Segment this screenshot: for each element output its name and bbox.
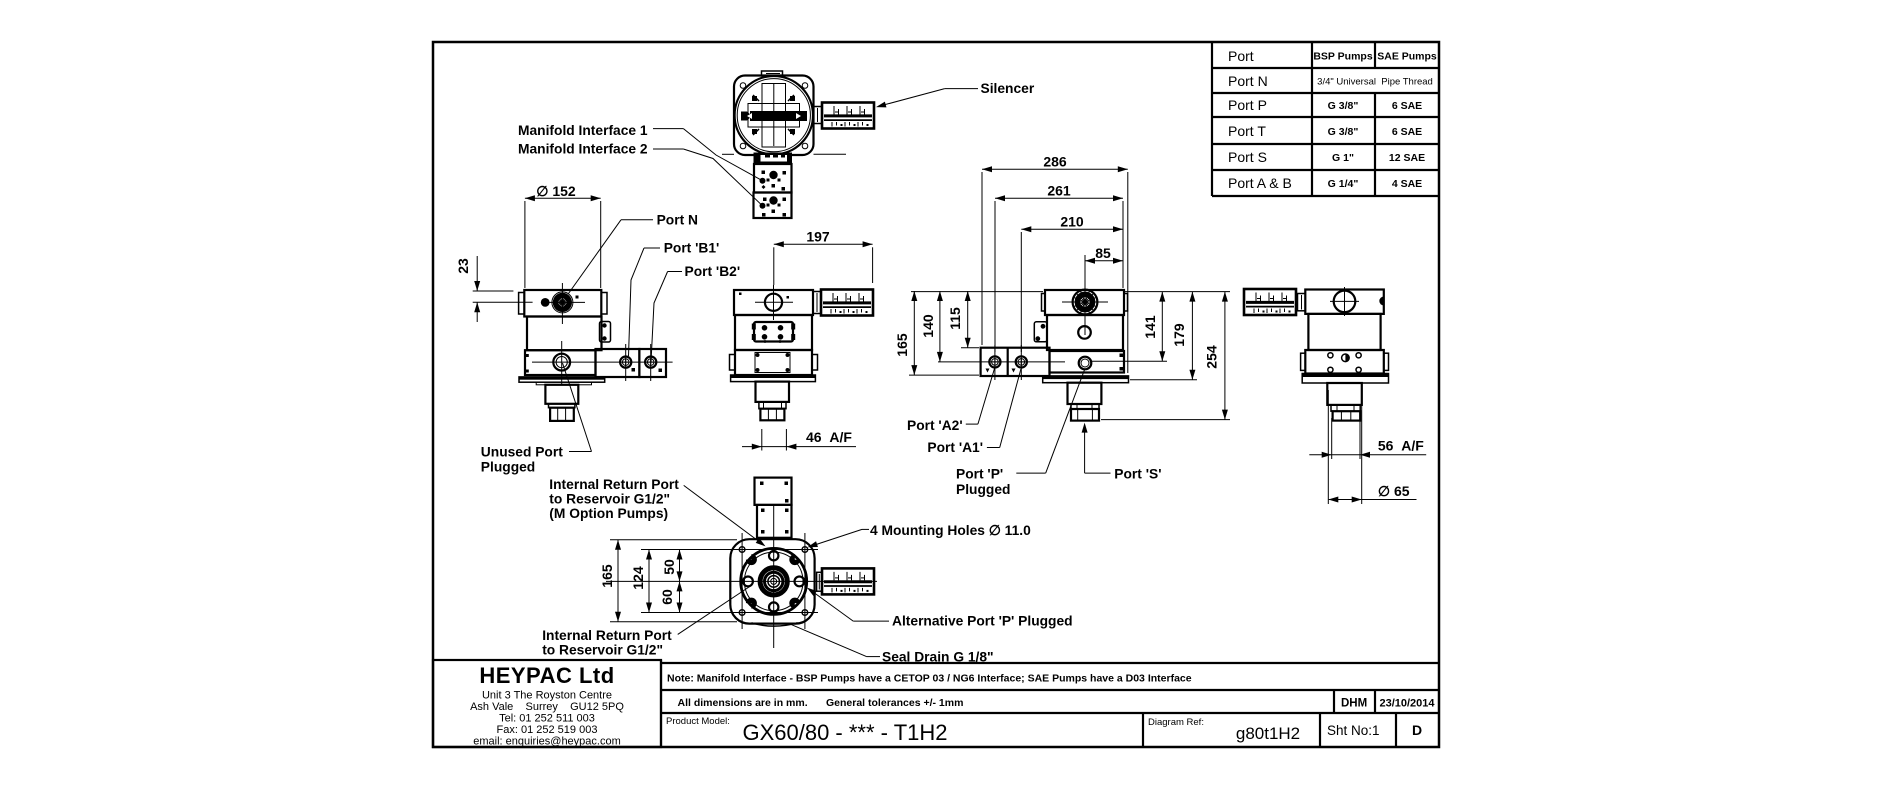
svg-text:Port T: Port T [1228,123,1266,139]
svg-text:Port N: Port N [1228,73,1268,89]
title block dimensions row [661,690,1439,713]
side latch bracket [600,322,611,343]
svg-text:Manifold Interface 2: Manifold Interface 2 [518,142,648,157]
mounting hole centrelines [606,505,877,648]
svg-text:179: 179 [1171,323,1187,347]
Internal Return Port label (bottom) [542,585,752,658]
drawing sheet frame [433,42,1439,747]
svg-text:115: 115 [947,307,963,330]
port A1 [1012,345,1027,380]
Port B2 label [651,264,740,362]
port table [1212,42,1439,196]
svg-text:Port 'A1': Port 'A1' [927,440,983,455]
hex plug (left view) [550,408,574,421]
svg-text:Unused Port: Unused Port [481,445,563,460]
svg-text:Silencer: Silencer [981,81,1035,96]
svg-text:SAE Pumps: SAE Pumps [1377,51,1437,63]
svg-text:210: 210 [1060,214,1084,230]
svg-text:85: 85 [1095,245,1111,261]
svg-text:email: enquiries@heypac.com: email: enquiries@heypac.com [473,736,621,748]
Port B1 label [629,240,720,356]
179 dimension [1130,292,1197,380]
svg-text:165: 165 [894,333,910,357]
centreline stubs [722,153,846,155]
manifold interface block 2 [754,193,792,219]
silencer (top view) [822,103,874,129]
svg-text:to Reservoir G1/2": to Reservoir G1/2" [549,492,670,507]
Port P Plugged label [956,370,1085,497]
svg-text:Port 'P': Port 'P' [956,467,1003,482]
title block note row [661,663,1439,685]
top cap (left view) [519,290,607,317]
top cap (front view) [734,285,813,320]
main body (far right view) [1308,314,1380,350]
Port A2 label [907,369,995,434]
shaft housing (left view) [545,385,578,408]
hex plug (front view) [760,409,784,421]
165 dimension (bottom view) [599,540,737,622]
svg-text:D: D [1412,722,1422,738]
mounting flange (far right view) [1302,374,1388,384]
svg-text:Port: Port [1228,48,1254,64]
svg-text:Plugged: Plugged [956,482,1010,497]
silencer connector (far right view) [1298,294,1306,311]
cover corner bolt holes [740,83,808,149]
46 A/F dimension [742,429,856,451]
port B1 [620,344,635,381]
svg-text:23/10/2014: 23/10/2014 [1379,698,1435,710]
top cap (far right view) [1305,287,1384,316]
svg-text:BSP Pumps: BSP Pumps [1313,51,1372,63]
svg-text:Port S: Port S [1228,149,1267,165]
svg-text:254: 254 [1204,345,1220,369]
shaft housing (far right view) [1327,383,1362,411]
svg-text:Internal Return Port: Internal Return Port [542,628,672,643]
mounting holes 11.0 [739,547,807,616]
Internal Return Port (M option) label [549,477,767,549]
svg-text:286: 286 [1043,154,1067,170]
56 A/F dimension [1309,418,1426,459]
svg-text:Port 'B2': Port 'B2' [685,264,741,279]
svg-text:Manifold Interface 1: Manifold Interface 1 [518,123,648,138]
mounting flange (front view) [731,375,816,382]
svg-text:6 SAE: 6 SAE [1392,126,1422,138]
svg-text:197: 197 [806,229,830,245]
svg-text:Port P: Port P [1228,97,1267,113]
cross boss on cover [748,84,800,148]
pump top cover rounded square [734,76,814,156]
mounting flange (right side view) [1043,376,1129,383]
svg-text:Plugged: Plugged [481,460,535,475]
svg-text:261: 261 [1047,183,1071,199]
dia 152 dimension [525,183,601,288]
title block company box [433,660,661,748]
Silencer label [875,81,1035,110]
port N knurled plug [548,283,585,324]
svg-text:Port A & B: Port A & B [1228,175,1292,191]
svg-text:56 A/F: 56 A/F [1378,438,1424,454]
main body (left view) [527,317,602,351]
svg-text:Sht No:1: Sht No:1 [1327,723,1380,738]
shaft housing (front view) [756,382,790,409]
manifold block rear (bottom view) [755,478,792,505]
286 dimension [982,154,1128,374]
main body (front view) [735,315,812,350]
115 dimension [947,291,979,348]
manifold interface face [752,322,795,343]
gasket collar below cover [754,153,793,165]
silencer connector (top view) [814,107,823,124]
svg-text:Product Model:: Product Model: [666,716,730,727]
Manifold Interface 1 label [518,123,762,181]
svg-text:165: 165 [599,564,615,588]
Alternative Port P Plugged label [805,585,1072,628]
Manifold Interface 2 label [518,142,762,206]
svg-text:Seal Drain G 1/8": Seal Drain G 1/8" [882,650,994,665]
svg-text:Internal Return Port: Internal Return Port [549,477,679,492]
svg-text:G 1/4": G 1/4" [1328,178,1359,190]
svg-text:Fax: 01 252 519 003: Fax: 01 252 519 003 [497,724,598,736]
hex plug port S (right side view) [1071,409,1099,421]
mounting flange (left view) [519,377,605,385]
svg-text:50: 50 [661,559,677,575]
base block (front view) [730,350,818,375]
Port A1 label [927,369,1021,455]
top tab [762,71,783,76]
manifold interface block 1 [754,164,792,193]
unused port on base block [532,341,590,384]
ports A1 A2 block [976,348,1065,376]
HEYPAC embossed logo text [741,111,807,121]
svg-text:Port 'A2': Port 'A2' [907,418,963,433]
pilot boss circles [741,548,807,614]
141 dimension (right of view) [1092,292,1231,362]
manifold block front (bottom view) [757,505,792,538]
base block (left view) [525,350,596,375]
svg-text:60: 60 [659,589,675,605]
base block with bolts (far right view) [1301,350,1389,374]
svg-text:Unit 3 The Royston Centre: Unit 3 The Royston Centre [482,690,612,702]
svg-text:6 SAE: 6 SAE [1392,100,1422,112]
85 dimension [1085,245,1123,290]
Unused Port Plugged label [481,363,592,475]
dia 65 dimension [1328,390,1416,504]
svg-text:∅ 152: ∅ 152 [536,183,576,199]
silencer (far right view) [1244,289,1296,315]
165 dimension (left of view) [894,291,1043,375]
bolt circle holes [743,551,804,612]
svg-text:General tolerances +/- 1mm: General tolerances +/- 1mm [826,697,963,709]
254 dimension [1101,292,1230,420]
Port N label [569,213,699,294]
svg-text:G 3/8": G 3/8" [1328,126,1359,138]
port A2 [986,345,1001,380]
small plugged port dot [541,298,550,307]
4 Mounting Holes label [807,523,1032,550]
svg-text:4 SAE: 4 SAE [1392,178,1422,190]
svg-text:Tel: 01 252 511 003: Tel: 01 252 511 003 [499,713,595,725]
Seal Drain label [791,624,994,664]
ports B1/B2 manifold blocks [590,349,673,377]
124 dimension (bottom view) [630,550,652,613]
top cap (right side view) [1042,290,1128,315]
svg-text:124: 124 [630,566,646,590]
197 dimension [774,229,873,286]
svg-text:G 1": G 1" [1332,152,1354,164]
svg-text:12 SAE: 12 SAE [1389,152,1425,164]
60 dimension (bottom view) [659,581,683,612]
svg-text:Port N: Port N [657,213,698,228]
port B2 [645,344,662,381]
svg-text:g80t1H2: g80t1H2 [1236,724,1300,743]
lower block with port S face (right side view) [1050,351,1125,373]
svg-text:G 3/8": G 3/8" [1328,100,1359,112]
silencer (front view) [821,290,873,316]
svg-text:All dimensions are in mm.: All dimensions are in mm. [678,697,808,709]
140 dimension [920,291,976,362]
svg-text:Alternative Port 'P' Plugged: Alternative Port 'P' Plugged [892,614,1073,629]
svg-text:GX60/80 - *** - T1H2: GX60/80 - *** - T1H2 [742,720,947,745]
23 dimension [455,256,533,322]
silencer (bottom view) [817,572,822,591]
pump mounting face squircle [730,539,814,626]
side latch bracket (right side view) [1034,322,1047,342]
261 dimension [995,183,1123,353]
svg-text:23: 23 [455,258,471,274]
svg-text:∅ 65: ∅ 65 [1378,483,1410,499]
svg-text:Diagram Ref:: Diagram Ref: [1148,717,1204,728]
splined shaft end [760,568,787,595]
silencer connector (front view) [813,292,821,314]
port P plugged circle [1079,357,1092,370]
svg-text:141: 141 [1142,315,1158,339]
svg-text:Ash Vale Surrey GU12 5PQ: Ash Vale Surrey GU12 5PQ [470,701,624,713]
port N knurled plug (side) [1062,290,1108,315]
svg-text:3/4" Universal Pipe Thread: 3/4" Universal Pipe Thread [1317,77,1433,88]
centreline (right side view) [1084,285,1086,335]
svg-text:140: 140 [920,314,936,338]
svg-text:Port 'S': Port 'S' [1114,467,1161,482]
Port S label [1082,423,1162,482]
svg-text:DHM: DHM [1341,698,1367,710]
svg-text:Note: Manifold Interface - BSP: Note: Manifold Interface - BSP Pumps hav… [667,673,1192,685]
svg-text:(M Option Pumps): (M Option Pumps) [549,506,668,521]
svg-text:Port 'B1': Port 'B1' [664,240,720,255]
svg-text:4 Mounting Holes ∅ 11.0: 4 Mounting Holes ∅ 11.0 [870,523,1031,538]
shaft housing (right side view) [1068,383,1102,409]
main body (right side view) [1047,315,1123,350]
svg-text:HEYPAC Ltd: HEYPAC Ltd [479,663,614,688]
motor housing circle [735,76,813,154]
210 dimension [1021,214,1123,353]
svg-text:to Reservoir G1/2": to Reservoir G1/2" [542,643,663,658]
title block product row [661,660,1439,747]
svg-text:46 A/F: 46 A/F [806,429,852,445]
hex plug (far right view) [1333,411,1361,420]
50 dimension (bottom view) [661,550,683,582]
